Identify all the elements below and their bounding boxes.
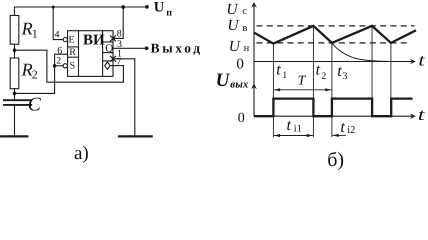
axis arrow Uvyh bbox=[251, 83, 257, 89]
node junction rail/pin8 riser bbox=[121, 5, 125, 9]
label t2 bbox=[316, 62, 327, 82]
svg-text:E: E bbox=[69, 35, 75, 46]
svg-text:t: t bbox=[418, 105, 426, 124]
pin 8 non-logic cross bbox=[111, 36, 116, 41]
wire pin 2 to S input bbox=[55, 65, 64, 67]
capacitor voltage waveform Uc bbox=[254, 26, 416, 44]
node A junction R1-R2 bbox=[13, 48, 17, 52]
wire C to ground bbox=[14, 105, 16, 136]
svg-text:U: U bbox=[226, 1, 239, 18]
label Un bbox=[229, 38, 250, 55]
svg-text:2: 2 bbox=[32, 68, 38, 82]
label t1 bbox=[276, 62, 287, 81]
label Up bbox=[154, 0, 172, 19]
label R1 bbox=[21, 18, 38, 40]
svg-text:U: U bbox=[216, 70, 231, 91]
node B junction R2-C bbox=[13, 92, 17, 96]
svg-text:с: с bbox=[242, 6, 247, 17]
svg-text:2: 2 bbox=[321, 71, 326, 82]
op-amp U1 IC body VI bbox=[68, 31, 113, 77]
output square waveform bbox=[254, 99, 413, 117]
node terminal output bbox=[145, 46, 149, 50]
guide line valley2 bbox=[331, 43, 333, 137]
wire R1 to R2 bbox=[14, 44, 16, 58]
svg-text:Q: Q bbox=[105, 43, 113, 55]
measure arrow T bbox=[274, 88, 331, 91]
svg-text:t: t bbox=[340, 119, 345, 136]
svg-text:t: t bbox=[276, 62, 281, 79]
pin 7 open-collector diamond bbox=[105, 62, 110, 69]
guide line valley3 bbox=[390, 43, 392, 99]
svg-text:U: U bbox=[229, 38, 242, 55]
capacitor C bbox=[4, 100, 31, 105]
pin E inversion circle bbox=[63, 37, 67, 41]
svg-text:а): а) bbox=[74, 143, 89, 164]
svg-text:i2: i2 bbox=[347, 125, 355, 136]
guide line peak2 bbox=[371, 26, 373, 99]
svg-text:в: в bbox=[242, 23, 247, 34]
dashed level Un bbox=[257, 42, 411, 44]
wire pin 7 discharge bbox=[110, 65, 123, 67]
measure arrow ti2 (left half) bbox=[333, 134, 347, 137]
wire R1 top riser bbox=[14, 7, 16, 16]
svg-text:t: t bbox=[316, 62, 321, 79]
label ti2 bbox=[340, 119, 355, 136]
dashed level Uv bbox=[257, 25, 415, 27]
node junction S branch bbox=[53, 64, 57, 68]
label ti1 bbox=[287, 117, 302, 134]
axis vertical U bbox=[253, 4, 255, 117]
node junction rail/pin4 riser bbox=[52, 5, 55, 8]
guide line t=t1 start bbox=[272, 44, 274, 138]
pin 1 non-logic cross bbox=[111, 56, 116, 61]
wire pin 8 to supply rail bbox=[113, 7, 123, 38]
resistor R1 bbox=[10, 16, 19, 45]
label R2 bbox=[21, 59, 38, 81]
wire node A to discharge (down and under IC) bbox=[15, 50, 124, 82]
label Uc bbox=[226, 1, 247, 18]
guide line peak1 bbox=[312, 26, 314, 137]
svg-text:R: R bbox=[21, 18, 33, 38]
svg-text:п: п bbox=[166, 8, 172, 19]
svg-text:t: t bbox=[287, 117, 292, 134]
svg-text:б): б) bbox=[327, 149, 344, 171]
svg-text:T: T bbox=[298, 72, 307, 87]
svg-text:вых: вых bbox=[230, 78, 249, 90]
svg-text:t: t bbox=[418, 50, 426, 69]
label t3 bbox=[337, 63, 347, 82]
pin S inversion circle bbox=[63, 64, 67, 68]
svg-text:1: 1 bbox=[282, 70, 287, 81]
wire pin 4 reset riser bbox=[53, 7, 63, 40]
label Uv bbox=[227, 17, 247, 34]
svg-text:1: 1 bbox=[32, 27, 38, 41]
svg-text:U: U bbox=[227, 17, 240, 34]
svg-text:4: 4 bbox=[55, 29, 60, 40]
svg-text:ВИ: ВИ bbox=[83, 32, 105, 48]
svg-text:н: н bbox=[244, 43, 250, 54]
label Uvyh bbox=[216, 70, 249, 91]
svg-text:8: 8 bbox=[117, 29, 122, 40]
wire R2 to C bbox=[14, 89, 16, 100]
svg-text:3: 3 bbox=[342, 71, 347, 82]
svg-text:R: R bbox=[69, 47, 76, 58]
wire pin 3 output bbox=[113, 47, 145, 49]
svg-text:0: 0 bbox=[236, 56, 244, 72]
wire top supply rail bbox=[15, 6, 147, 8]
svg-text:U: U bbox=[154, 0, 165, 15]
ground left bbox=[1, 135, 27, 137]
svg-text:i1: i1 bbox=[294, 123, 302, 134]
svg-text:C: C bbox=[28, 95, 42, 116]
svg-text:S: S bbox=[70, 61, 76, 72]
wire pin 1 to ground bbox=[113, 59, 135, 136]
axis t top bbox=[254, 61, 413, 63]
svg-text:0: 0 bbox=[238, 111, 245, 126]
svg-text:R: R bbox=[21, 59, 33, 79]
svg-text:Выход: Выход bbox=[151, 40, 203, 55]
svg-text:2: 2 bbox=[56, 56, 61, 67]
axis t bottom bbox=[254, 115, 413, 117]
ground center bbox=[119, 135, 152, 137]
node terminal Up bbox=[145, 5, 149, 9]
resistor R2 bbox=[10, 58, 19, 89]
wire node B to R and S inputs bbox=[15, 54, 68, 93]
exponential discharge curve t3 bbox=[332, 43, 388, 61]
svg-text:7: 7 bbox=[116, 56, 121, 67]
measure arrow ti1 bbox=[274, 134, 313, 137]
